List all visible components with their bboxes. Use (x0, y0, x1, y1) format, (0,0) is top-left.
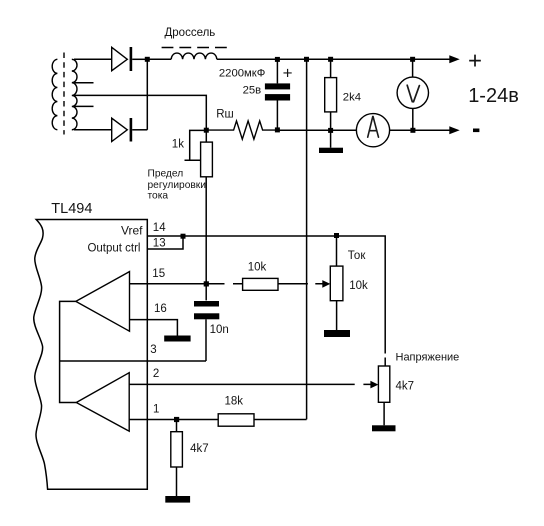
wire 10k to current pot wiper with arrow (278, 283, 324, 285)
svg-text:15: 15 (152, 268, 165, 280)
ammeter A (356, 114, 389, 147)
svg-text:Ток: Ток (348, 250, 367, 262)
svg-text:Предел: Предел (148, 169, 184, 180)
node junction voltmeter bottom (410, 128, 415, 133)
wire junction to choke (147, 58, 171, 60)
svg-text:3: 3 (150, 344, 156, 356)
ground under 2k4 (319, 148, 343, 153)
wire 1k top stem (205, 130, 207, 142)
wire secondary center tap to node down to Rsh (75, 95, 207, 128)
node junction pin15 1k 10n (204, 281, 209, 286)
node junction center-tap Rsh 1k (204, 128, 209, 133)
IC TL494 box outline (34, 220, 148, 490)
wire C1 top stem (276, 59, 278, 83)
svg-text:тока: тока (148, 190, 169, 201)
node junction C1 top (275, 57, 280, 62)
wire voltmeter bottom stem (412, 109, 414, 131)
resistor 4k7 lower (171, 432, 183, 467)
wire C1 bottom stem (276, 101, 278, 131)
svg-text:13: 13 (153, 238, 166, 250)
wire pin 14 Vref line (147, 236, 385, 366)
svg-text:4k7: 4k7 (396, 380, 415, 392)
node junction diodes output (145, 57, 150, 62)
svg-text:TL494: TL494 (51, 201, 92, 217)
wire feedback vertical from plus rail to 18k (306, 59, 308, 419)
svg-text:10k: 10k (349, 280, 368, 292)
label Предел регулировки тока (148, 169, 206, 202)
svg-text:25в: 25в (243, 85, 262, 97)
choke L1 core dashed line (162, 47, 227, 49)
svg-text:Output ctrl: Output ctrl (87, 243, 140, 255)
wire pin 3 feedback (60, 360, 206, 362)
wire 2k4 ground stem (330, 130, 332, 147)
wire secondary upper stub tap (75, 82, 94, 84)
wire pin 1 to 18k (129, 419, 218, 421)
wire secondary top tap to diode VD1 anode (74, 58, 112, 60)
wire 18k to feedback vertical (254, 419, 307, 421)
wire minus rail left of ammeter (277, 129, 356, 131)
svg-text:1k: 1k (172, 139, 184, 151)
ground voltage pot (372, 425, 396, 431)
svg-text:+: + (468, 47, 482, 74)
wire 2k4 bottom stem (330, 112, 332, 130)
resistor Rsh zigzag (206, 121, 277, 139)
diode VD1 (112, 47, 133, 71)
wire pin 15 (130, 283, 243, 285)
voltmeter V (397, 77, 428, 108)
potentiometer 4k7 voltage (378, 366, 389, 402)
node junction 2k4 top (328, 57, 333, 62)
wire current pot bottom stem (336, 301, 338, 330)
node junction feedback tap on plus rail (304, 57, 309, 62)
wire 4k7 top stem (176, 420, 178, 432)
svg-text:Напряжение: Напряжение (396, 351, 460, 363)
label minus output (473, 129, 479, 133)
wire voltage pot bottom stem (383, 402, 385, 425)
wire plus rail choke to arrow (217, 58, 451, 60)
node junction C1 bottom (275, 127, 280, 132)
svg-text:14: 14 (153, 222, 166, 234)
svg-text:2: 2 (153, 368, 159, 380)
svg-text:10n: 10n (210, 324, 229, 336)
arrow voltage pot wiper (370, 381, 378, 389)
potentiometer 10k current (330, 266, 343, 301)
svg-text:16: 16 (154, 303, 167, 315)
wire amp outputs link (60, 301, 77, 402)
arrow minus output terminal (449, 126, 459, 134)
svg-text:Rш: Rш (216, 108, 234, 120)
wire voltmeter top stem (412, 59, 414, 77)
transformer T1 core (63, 53, 65, 135)
capacitor 10n (194, 301, 219, 319)
node junction 2k4 bottom ground tap (328, 128, 333, 133)
wire 2k4 top stem (330, 59, 332, 77)
wire secondary lower stub tap (75, 105, 94, 107)
wire minus rail right of ammeter (390, 129, 451, 131)
wire cathode bus vertical (146, 59, 148, 130)
capacitor C1 2200мкФ 25в (265, 83, 290, 100)
arrow current pot wiper (322, 280, 330, 288)
svg-text:+: + (283, 64, 293, 83)
op-amp error amplifier 1 (76, 272, 130, 332)
rheostat 1k body (201, 142, 213, 177)
node junction pin13 to pin14 (181, 234, 186, 239)
svg-text:18k: 18k (225, 396, 244, 408)
op-amp error amplifier 2 (76, 373, 129, 432)
svg-text:4k7: 4k7 (190, 443, 209, 455)
wire current pot top stem (336, 236, 338, 267)
wire secondary bottom tap to diode VD2 anode (74, 129, 112, 131)
wire pin 16 to ground (130, 320, 178, 336)
svg-text:2k4: 2k4 (343, 92, 361, 104)
choke L1 winding (171, 53, 217, 59)
transformer T1 secondary winding (72, 59, 77, 129)
wire pin 2 to voltage pot wiper (129, 383, 371, 385)
wire pin 13 (147, 238, 183, 249)
node junction current pot top on Vref line (334, 233, 339, 238)
arrow plus output terminal (449, 55, 459, 63)
wire 10n bottom stem (205, 319, 207, 361)
node junction pin1 4k7 (174, 417, 179, 422)
wire VD2 cathode to cathode-bus (132, 129, 147, 131)
svg-text:10k: 10k (248, 262, 267, 274)
resistor 2k4 (325, 78, 337, 112)
ground pin 16 (164, 336, 190, 342)
resistor 18k (218, 414, 254, 426)
ground 4k7 lower (165, 496, 190, 503)
diode VD2 (112, 118, 133, 142)
wire VD1 cathode to junction (132, 58, 147, 60)
wire 1k bottom to pin15 node (205, 177, 207, 301)
svg-text:Vref: Vref (121, 223, 143, 237)
resistor 10k series (243, 278, 278, 290)
ground current pot (324, 330, 350, 337)
svg-text:Дроссель: Дроссель (165, 27, 216, 39)
rheostat 1k wiper link (185, 130, 207, 160)
svg-text:1-24в: 1-24в (468, 85, 519, 107)
transformer T1 primary winding (52, 59, 57, 129)
node junction voltmeter top (410, 57, 415, 62)
wire 4k7 bottom stem (176, 467, 178, 496)
svg-text:2200мкФ: 2200мкФ (219, 68, 265, 80)
svg-text:1: 1 (153, 404, 159, 416)
